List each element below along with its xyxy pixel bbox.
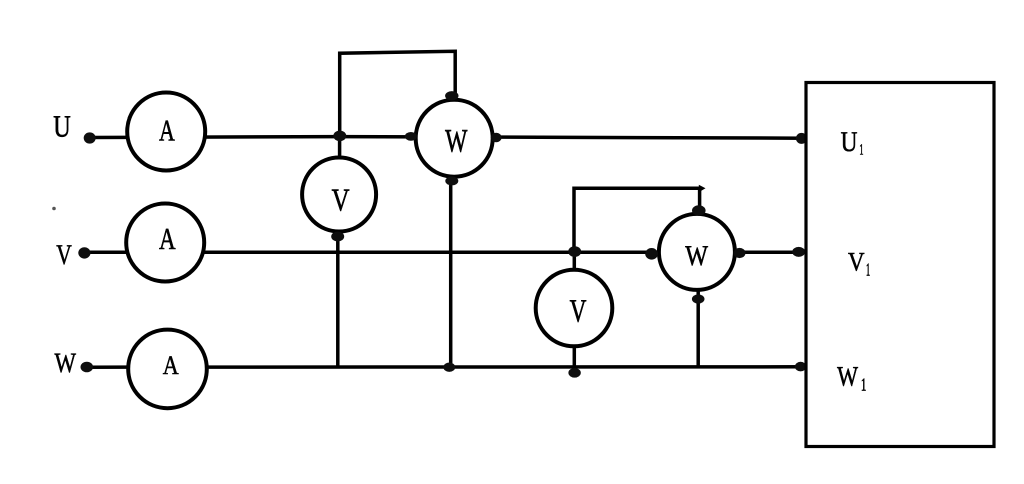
terminal W bbox=[81, 362, 94, 373]
junction W2 right pin bbox=[734, 248, 746, 258]
svg-text:1: 1 bbox=[861, 376, 866, 395]
wire: voltmeter V2 drop to phase W bbox=[573, 347, 577, 369]
ammeter A1 bbox=[127, 93, 205, 171]
junction phase U at load box bbox=[796, 133, 807, 144]
wire: wattmeter W1 voltage-coil loop bbox=[340, 51, 456, 137]
label V1 bbox=[848, 248, 870, 281]
ammeter A2 bbox=[126, 204, 204, 282]
wire: wattmeter W1 drop to phase W bbox=[449, 179, 453, 368]
junction on phase V at V2/loop tap bbox=[568, 246, 581, 257]
svg-text:V: V bbox=[56, 239, 72, 270]
label U (phase) bbox=[53, 110, 71, 144]
svg-text:U: U bbox=[841, 127, 858, 158]
svg-text:A: A bbox=[163, 351, 179, 380]
wattmeter W2 bbox=[659, 214, 735, 290]
junction phase W below W1 bbox=[443, 363, 455, 372]
svg-text:W: W bbox=[445, 123, 468, 159]
svg-text:V: V bbox=[332, 183, 350, 218]
junction W2 top pin bbox=[692, 205, 706, 215]
svg-text:W: W bbox=[55, 348, 77, 379]
wire: voltmeter V1 drop to phase W bbox=[336, 233, 340, 367]
svg-text:U: U bbox=[53, 110, 71, 144]
label U1 bbox=[841, 127, 864, 159]
junction W1 bottom pin bbox=[445, 176, 458, 185]
junction V1 bottom pin bbox=[331, 232, 344, 242]
wire: phase W horizontal line bbox=[86, 365, 806, 369]
voltmeter V1 bbox=[302, 158, 376, 232]
wire: phase U horizontal line bbox=[89, 137, 806, 139]
wire: voltmeter V2 top stub bbox=[573, 252, 577, 269]
junction V2 bottom at phase W bbox=[568, 368, 580, 378]
terminal U bbox=[84, 132, 96, 143]
svg-text:W: W bbox=[685, 240, 708, 271]
wire: wattmeter W2 drop to phase W bbox=[696, 292, 700, 369]
wire: voltmeter V1 top stub bbox=[338, 137, 342, 157]
svg-text:W: W bbox=[837, 361, 858, 392]
ammeter A3 bbox=[128, 330, 207, 409]
svg-text:V: V bbox=[848, 248, 865, 277]
wire: phase V horizontal line bbox=[84, 250, 806, 254]
arrowhead at W2 loop corner bbox=[699, 185, 706, 192]
junction phase V at load box bbox=[792, 247, 805, 257]
label V (phase) bbox=[56, 239, 72, 270]
junction W2 bottom pin bbox=[692, 294, 705, 303]
label W (phase) bbox=[55, 348, 77, 379]
svg-text:V: V bbox=[570, 293, 587, 329]
label W1 bbox=[837, 361, 866, 395]
svg-text:1: 1 bbox=[859, 142, 863, 158]
junction phase W at load box bbox=[795, 362, 806, 372]
junction W2 left pin bbox=[645, 248, 658, 260]
wire: wattmeter W2 voltage-coil loop bbox=[574, 188, 702, 252]
load box bbox=[806, 83, 994, 447]
wattmeter W1 bbox=[416, 100, 493, 177]
svg-text:A: A bbox=[159, 223, 176, 257]
junction W1 top pin bbox=[445, 91, 458, 100]
stray ink speck bbox=[52, 207, 56, 211]
junction W1 right pin bbox=[491, 133, 502, 142]
voltmeter V2 bbox=[536, 270, 613, 347]
junction on phase U at V1/loop tap bbox=[333, 131, 346, 142]
svg-text:1: 1 bbox=[866, 261, 870, 280]
terminal V bbox=[78, 247, 90, 258]
junction W1 left pin bbox=[405, 132, 417, 141]
svg-text:A: A bbox=[159, 115, 175, 148]
